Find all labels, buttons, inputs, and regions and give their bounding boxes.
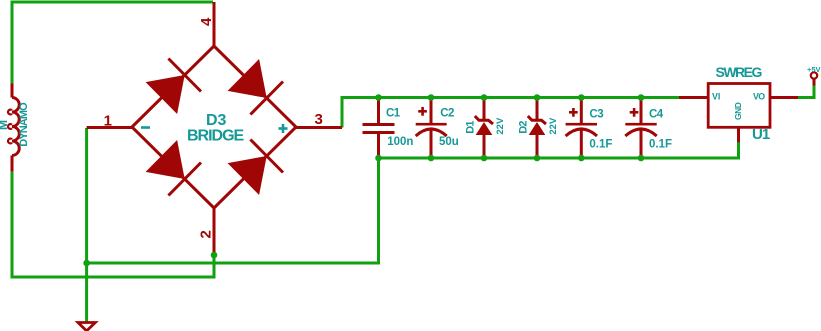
svg-text:100n: 100n (387, 136, 413, 148)
svg-text:C2: C2 (440, 107, 454, 119)
svg-text:VO: VO (753, 91, 765, 101)
svg-text:VI: VI (712, 91, 720, 101)
svg-text:GND: GND (733, 102, 743, 120)
svg-text:2: 2 (198, 230, 215, 238)
svg-text:4: 4 (198, 17, 215, 26)
svg-text:+5V: +5V (807, 65, 821, 74)
svg-text:C4: C4 (649, 109, 664, 121)
svg-text:U1: U1 (752, 126, 770, 143)
svg-text:0.1F: 0.1F (589, 139, 612, 151)
svg-text:1: 1 (104, 113, 112, 130)
svg-text:D1: D1 (464, 121, 476, 134)
svg-text:SWREG: SWREG (716, 64, 763, 80)
svg-text:M: M (0, 120, 10, 130)
svg-text:22V: 22V (548, 117, 559, 135)
svg-text:BRIDGE: BRIDGE (187, 127, 245, 144)
svg-text:3: 3 (315, 111, 323, 128)
svg-text:22V: 22V (495, 117, 506, 135)
svg-text:C1: C1 (386, 107, 401, 119)
svg-text:C3: C3 (589, 109, 603, 121)
svg-text:50u: 50u (439, 136, 459, 148)
svg-text:0.1F: 0.1F (649, 139, 672, 151)
svg-text:DYNAMO: DYNAMO (18, 102, 30, 147)
svg-text:D2: D2 (517, 121, 529, 134)
